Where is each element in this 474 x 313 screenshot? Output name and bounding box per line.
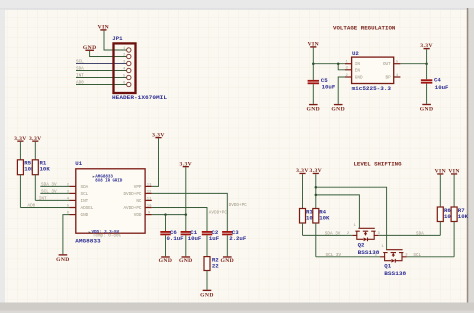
svg-text:Q2: Q2	[358, 241, 365, 248]
wire 3.3V to U1 VPP	[152, 138, 159, 186]
svg-text:10K: 10K	[458, 213, 469, 220]
ground GND (JP1)	[83, 45, 97, 51]
svg-text:10uF: 10uF	[188, 235, 202, 242]
resistor R4	[313, 174, 319, 257]
svg-text:JP1: JP1	[112, 35, 123, 42]
junction VDD/3.3V	[185, 213, 188, 216]
resistor R7	[451, 175, 457, 257]
wire SDA 3V to Q2 source	[303, 234, 353, 236]
svg-text:Q1: Q1	[384, 263, 391, 270]
supply VIN (R6)	[435, 168, 446, 174]
wire U1 VDD	[152, 214, 186, 216]
svg-text:EN: EN	[355, 68, 361, 73]
svg-text:GND: GND	[220, 258, 234, 264]
ground GND (C6)	[159, 256, 173, 264]
svg-text:VDD: VDD	[134, 213, 142, 218]
wire Q2 drain SDA to R6	[379, 234, 441, 236]
ground GND (C3)	[220, 256, 234, 264]
wire SDA 3V to U1 pin 2	[40, 185, 69, 187]
IC U1	[70, 169, 152, 239]
pin numbers U1 right	[147, 183, 152, 215]
wire U2 GND to ground	[338, 77, 345, 104]
svg-text:GND: GND	[420, 106, 434, 112]
svg-text:SCL: SCL	[413, 253, 421, 258]
resistor R2	[204, 257, 210, 290]
SECTION: header JP1	[76, 25, 168, 102]
svg-text:GND: GND	[81, 213, 89, 218]
svg-text:mic5225-3.3: mic5225-3.3	[352, 85, 392, 92]
svg-text:SDA: SDA	[81, 185, 89, 190]
svg-text:0.1uF: 0.1uF	[167, 235, 185, 242]
wire SCL 3V to U1 pin 3	[40, 192, 69, 194]
svg-text:GND: GND	[306, 107, 320, 113]
svg-text:22: 22	[212, 262, 219, 269]
svg-text:GND: GND	[355, 76, 363, 81]
wire U1 GND to ground	[63, 215, 70, 255]
wire 3.3V to Q1 gate	[316, 187, 387, 250]
junction 3.3V/Q1 gate	[315, 186, 318, 189]
IC U2	[345, 57, 400, 83]
svg-text:HEADER-1X670MIL: HEADER-1X670MIL	[112, 94, 168, 101]
svg-text:VPP: VPP	[134, 185, 142, 190]
transistor Q1	[380, 250, 406, 263]
svg-text:AVDD+PC: AVDD+PC	[209, 211, 228, 216]
resistor R3	[300, 174, 306, 235]
pin numbers JP1 1-6	[123, 47, 126, 86]
svg-text:12: 12	[147, 190, 152, 194]
junction EN/IN	[337, 62, 340, 64]
supply VIN (JP1)	[98, 25, 109, 31]
wire U2 EN to IN	[338, 64, 345, 70]
wire SDA to JP1 pin 4	[76, 70, 126, 72]
capacitor C5	[308, 80, 319, 104]
wire GND to JP1 pin 2	[90, 51, 127, 57]
wire VIN to U2 IN	[313, 63, 345, 65]
svg-text:GND: GND	[179, 258, 193, 264]
wire VIN to C5	[312, 48, 314, 80]
supply VIN (R7)	[448, 168, 459, 174]
wire U1 AVDD+PC to C2	[152, 208, 207, 232]
svg-text:U1: U1	[75, 160, 82, 167]
transistor Q2	[352, 228, 378, 241]
capacitor C6	[160, 231, 170, 256]
ground GND (R2)	[200, 290, 214, 299]
svg-text:IN: IN	[355, 62, 361, 67]
svg-text:10: 10	[147, 205, 152, 209]
wire Q1 drain SCL to R7	[407, 256, 455, 258]
wire VDD to C6	[165, 215, 167, 231]
supply 3.3V (R1)	[29, 136, 42, 142]
svg-text:10K: 10K	[319, 215, 330, 222]
resistor R5	[17, 142, 23, 208]
wire 3.3V to VDD rail and C1	[185, 167, 187, 231]
wire INT to JP1 pin 5	[76, 77, 126, 79]
svg-text:10uF: 10uF	[322, 84, 336, 91]
wire VIN to JP1 pin 1	[104, 31, 126, 50]
svg-text:U2: U2	[352, 50, 359, 57]
svg-text:GND: GND	[159, 258, 173, 264]
svg-text:NC: NC	[136, 199, 142, 204]
junction 3.3V/Q2 gate	[315, 194, 318, 197]
svg-text:AMG8833: AMG8833	[75, 237, 101, 244]
junction OUT/3.3V	[425, 62, 428, 64]
svg-text:8X8 IR GRID: 8X8 IR GRID	[95, 180, 122, 184]
svg-text:SDA 3V: SDA 3V	[325, 231, 341, 236]
connector JP1	[114, 43, 136, 93]
ground GND (C4)	[420, 104, 434, 113]
wire U1 DVDD+PC to C3	[152, 193, 228, 231]
svg-text:OUT: OUT	[383, 62, 391, 67]
svg-text:AVDD+PC: AVDD+PC	[123, 206, 141, 211]
svg-text:10K: 10K	[40, 166, 51, 173]
supply 3.3V (R4)	[309, 168, 322, 174]
junction VDD/C6	[164, 213, 167, 216]
supply 3.3V (U2 out)	[420, 43, 433, 49]
svg-text:SCL 3V: SCL 3V	[326, 253, 342, 258]
svg-text:11: 11	[147, 197, 152, 201]
svg-text:VOLTAGE REGULATION: VOLTAGE REGULATION	[333, 24, 396, 31]
svg-text:GND: GND	[331, 107, 345, 113]
pin numbers U2	[346, 61, 400, 78]
supply 3.3V (R5)	[14, 136, 27, 142]
pin numbers Q2	[347, 224, 381, 236]
svg-text:13: 13	[147, 183, 152, 187]
wire U2 OUT to 3.3V	[400, 63, 426, 65]
supply 3.3V (R3)	[296, 168, 309, 174]
junction VIN/IN	[312, 62, 315, 64]
capacitor C2	[202, 231, 212, 257]
wire AD0 to U1 pin 5	[20, 207, 69, 209]
svg-text:1uF: 1uF	[209, 235, 220, 242]
svg-text:BSS138: BSS138	[384, 270, 406, 277]
wire AD0 to JP1 pin 6	[76, 84, 126, 86]
resistor R6	[437, 175, 443, 236]
svg-text:DVDD+PC: DVDD+PC	[123, 192, 141, 197]
pin numbers Q1	[375, 245, 409, 257]
capacitor C3	[222, 231, 232, 256]
svg-text:10uF: 10uF	[435, 84, 449, 91]
supply 3.3V (VPP)	[152, 132, 165, 138]
wire INT to U1 pin 4	[35, 199, 69, 201]
SECTION: U1 AMG8833	[14, 132, 247, 298]
svg-text:SDA: SDA	[416, 231, 424, 236]
capacitor C1	[181, 231, 191, 256]
svg-text:C4: C4	[434, 77, 441, 84]
SECTION: level shifting	[296, 161, 468, 278]
svg-text:GND: GND	[200, 292, 214, 298]
ground GND (U1)	[56, 254, 70, 263]
svg-text:GND: GND	[56, 257, 70, 263]
supply 3.3V (VDD)	[179, 161, 192, 167]
wire 3.3V to C4	[426, 49, 428, 79]
SECTION: voltage regulation	[306, 24, 449, 112]
svg-text:ADSEL: ADSEL	[81, 206, 94, 211]
pin numbers U1 left	[67, 183, 70, 215]
svg-text:BP: BP	[386, 76, 392, 81]
svg-text:DVDD+PC: DVDD+PC	[229, 203, 248, 208]
wire SCL 3V to Q1 source	[316, 256, 380, 258]
wire SCL to JP1 pin 3	[76, 63, 126, 65]
supply VIN (U2 input)	[308, 41, 319, 47]
svg-text:SCL: SCL	[81, 192, 89, 197]
capacitor C4	[421, 79, 432, 104]
svg-text:2.2uF: 2.2uF	[229, 235, 247, 242]
svg-text:INT: INT	[81, 199, 89, 204]
ground GND (C1)	[179, 256, 193, 264]
resistor R1	[32, 142, 38, 201]
ground GND (C5)	[306, 104, 320, 113]
wire 3.3V to Q2 gate	[316, 195, 360, 229]
svg-text:LEVEL SHIFTING: LEVEL SHIFTING	[354, 161, 403, 168]
ground GND (U2)	[331, 104, 345, 113]
